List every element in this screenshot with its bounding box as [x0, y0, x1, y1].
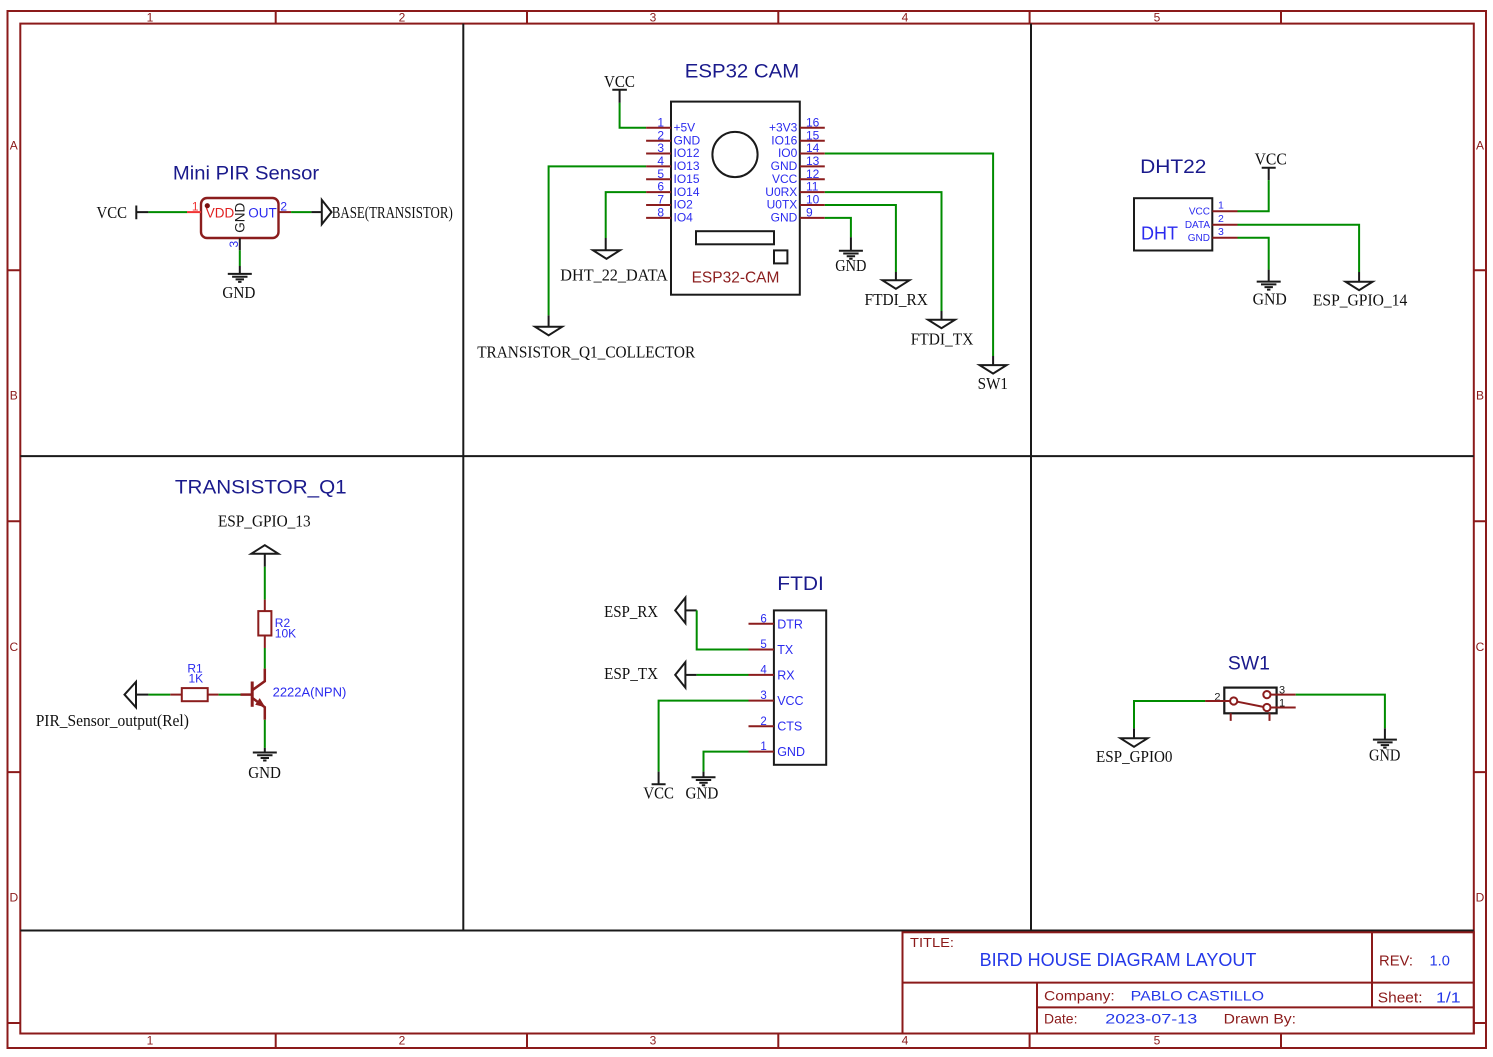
svg-text:RX: RX [777, 668, 795, 682]
wire FTDI VCC pin3 to VCC port [659, 701, 749, 772]
svg-text:A: A [1476, 139, 1484, 153]
svg-text:3: 3 [650, 11, 657, 25]
ground symbol (PIR) [228, 274, 252, 282]
wire DHT pin3 to GND [1238, 238, 1269, 270]
svg-text:13: 13 [806, 154, 820, 168]
global label arrow SW1 (down) [980, 365, 1007, 374]
global label arrow FTDI_RX (down) [882, 280, 909, 289]
svg-text:OUT: OUT [248, 205, 277, 220]
wire R1 to base [208, 694, 219, 696]
svg-text:16: 16 [806, 115, 820, 129]
svg-text:DATA: DATA [1185, 220, 1211, 231]
svg-text:C: C [1476, 640, 1485, 654]
svg-text:ESP_TX: ESP_TX [604, 664, 658, 683]
DHT22 sensor body U3 [1134, 198, 1212, 250]
global label arrow ESP_GPIO_14 (down) [1346, 282, 1373, 291]
svg-text:Date:: Date: [1044, 1011, 1077, 1027]
svg-text:VCC: VCC [1189, 206, 1210, 217]
svg-text:Company:: Company: [1044, 988, 1115, 1004]
wire IO0 to SW1 label [825, 154, 993, 357]
resistor R1 [182, 662, 208, 702]
left pin names [674, 121, 701, 225]
svg-text:3: 3 [760, 690, 766, 702]
svg-text:GND: GND [1253, 289, 1287, 308]
PIR pin 1 [187, 199, 201, 213]
wire R1 to PIR_Sensor_output [170, 694, 182, 696]
svg-text:3: 3 [650, 1034, 657, 1048]
wire U0RX to FTDI_TX label [825, 192, 942, 311]
svg-text:IO13: IO13 [674, 159, 700, 173]
resistor R2 [258, 611, 296, 640]
svg-text:6: 6 [657, 180, 664, 194]
svg-text:SW1: SW1 [978, 374, 1008, 393]
global label arrow DHT_22_DATA (down) [593, 250, 620, 258]
global label arrow FTDI_TX (down) [928, 320, 955, 329]
right pin names [765, 121, 797, 225]
svg-text:TRANSISTOR_Q1: TRANSISTOR_Q1 [175, 477, 347, 498]
power port VCC (PIR) [97, 203, 149, 222]
global label ESP_RX [604, 598, 685, 624]
wire VCC to pin1 [620, 103, 647, 128]
wire pin9 GND to ground [825, 218, 851, 237]
svg-text:5: 5 [1154, 1034, 1161, 1048]
wire pin3 to GND [239, 250, 241, 266]
svg-text:TX: TX [777, 643, 794, 657]
svg-text:VCC: VCC [97, 203, 128, 222]
left pin stubs 1-8 [646, 128, 671, 218]
svg-text:GND: GND [248, 763, 281, 782]
global label arrow ESP_GPIO_13 (up) [251, 545, 278, 554]
svg-text:GND: GND [835, 256, 866, 275]
svg-text:Sheet:: Sheet: [1378, 991, 1423, 1007]
global label arrow ESP_GPIO0 (down) [1121, 738, 1148, 747]
svg-text:FTDI: FTDI [777, 574, 824, 595]
svg-text:ESP_GPIO0: ESP_GPIO0 [1096, 747, 1173, 766]
wire ESP_RX to FTDI TX [685, 609, 696, 611]
PIR pin 3 [227, 238, 241, 250]
SW1 pin numbers [1214, 685, 1285, 710]
transistor Q1 2222A(NPN) [241, 669, 265, 720]
wire SW1 pin3 to GND [1296, 695, 1385, 729]
svg-text:U0TX: U0TX [767, 198, 798, 212]
svg-text:GND: GND [1188, 233, 1210, 244]
svg-text:BIRD HOUSE DIAGRAM LAYOUT: BIRD HOUSE DIAGRAM LAYOUT [980, 950, 1257, 970]
svg-text:U0RX: U0RX [765, 185, 797, 199]
svg-text:3: 3 [657, 141, 664, 155]
svg-text:TITLE:: TITLE: [910, 935, 954, 950]
svg-text:1: 1 [147, 1034, 154, 1048]
ground symbol (ESP32 pin9) [839, 251, 863, 259]
svg-text:5: 5 [760, 639, 766, 651]
svg-text:ESP_GPIO_13: ESP_GPIO_13 [218, 511, 311, 530]
global label BASE(TRANSISTOR) [322, 200, 453, 224]
FTDI pin numbers [760, 613, 767, 753]
wire R2 to collector [264, 636, 266, 649]
PIR sensor body U1 [201, 198, 279, 238]
DHT pin names [1185, 206, 1211, 244]
ground symbol (Q1) [253, 753, 277, 761]
ground symbol (DHT22) [1257, 282, 1281, 290]
svg-text:TRANSISTOR_Q1_COLLECTOR: TRANSISTOR_Q1_COLLECTOR [477, 343, 696, 362]
svg-text:PIR_Sensor_output(Rel): PIR_Sensor_output(Rel) [36, 711, 189, 730]
wire U0TX to FTDI_RX label [825, 205, 896, 272]
global label ESP_TX [604, 662, 685, 688]
svg-text:D: D [1476, 891, 1485, 905]
svg-text:9: 9 [806, 206, 813, 220]
svg-text:2: 2 [399, 11, 406, 25]
svg-text:4: 4 [902, 1034, 909, 1048]
svg-text:ESP32-CAM: ESP32-CAM [692, 270, 780, 287]
svg-text:2023-07-13: 2023-07-13 [1105, 1011, 1197, 1027]
svg-text:B: B [1476, 389, 1484, 403]
svg-text:IO4: IO4 [674, 211, 694, 225]
svg-text:DHT: DHT [1141, 223, 1178, 243]
wire FTDI GND pin1 to ground [704, 752, 749, 772]
svg-text:D: D [9, 891, 18, 905]
svg-text:GND: GND [685, 784, 718, 803]
power port VCC (ESP32) [604, 72, 635, 103]
wire IO14 to DHT_22_DATA [606, 192, 646, 238]
svg-text:FTDI_RX: FTDI_RX [865, 290, 928, 309]
svg-text:Mini PIR Sensor: Mini PIR Sensor [173, 163, 320, 184]
wire VCC to PIR pin1 [148, 211, 187, 213]
svg-text:14: 14 [806, 141, 820, 155]
svg-text:GND: GND [771, 211, 798, 225]
svg-text:FTDI_TX: FTDI_TX [911, 329, 974, 348]
svg-text:8: 8 [657, 206, 664, 220]
svg-text:4: 4 [902, 11, 909, 25]
svg-text:2: 2 [399, 1034, 406, 1048]
FTDI pin names [777, 617, 805, 759]
svg-text:VCC: VCC [643, 784, 674, 803]
PIR pin 2 [279, 199, 292, 213]
svg-text:IO14: IO14 [674, 185, 700, 199]
svg-text:VDD: VDD [206, 205, 235, 220]
svg-text:4: 4 [760, 665, 767, 677]
svg-text:ESP_RX: ESP_RX [604, 602, 658, 621]
svg-text:VCC: VCC [1255, 149, 1287, 168]
svg-text:BASE(TRANSISTOR): BASE(TRANSISTOR) [332, 203, 453, 222]
wire DHT pin1 to VCC [1238, 180, 1269, 211]
svg-text:VCC: VCC [604, 72, 635, 91]
svg-text:1/1: 1/1 [1436, 991, 1461, 1007]
svg-text:IO12: IO12 [674, 146, 700, 160]
svg-text:DTR: DTR [777, 617, 803, 631]
right pin numbers 16-9 [806, 115, 820, 219]
svg-text:10: 10 [806, 193, 820, 207]
svg-text:SW1: SW1 [1228, 654, 1270, 675]
svg-text:7: 7 [657, 193, 664, 207]
svg-text:3: 3 [1218, 226, 1224, 238]
svg-text:ESP_GPIO_14: ESP_GPIO_14 [1313, 291, 1408, 310]
DHT pin stubs 1-3 [1212, 211, 1237, 238]
svg-text:GND: GND [771, 159, 798, 173]
ground symbol (FTDI) [692, 777, 716, 785]
wire pin2 to BASE label [291, 211, 311, 213]
svg-text:6: 6 [760, 613, 766, 625]
SW1 pin stubs [1205, 695, 1296, 708]
svg-text:2222A(NPN): 2222A(NPN) [273, 684, 347, 699]
svg-text:1.0: 1.0 [1430, 954, 1450, 970]
svg-text:REV:: REV: [1379, 954, 1413, 970]
svg-text:11: 11 [806, 180, 819, 194]
power port VCC (FTDI, down) [643, 772, 674, 803]
svg-text:+5V: +5V [674, 121, 696, 135]
FTDI connector body J1 [774, 610, 826, 764]
svg-text:DHT22: DHT22 [1140, 157, 1206, 178]
svg-text:2: 2 [760, 716, 766, 728]
svg-text:DHT_22_DATA: DHT_22_DATA [560, 265, 668, 284]
switch SW1 body [1224, 688, 1276, 721]
svg-text:1: 1 [147, 11, 154, 25]
svg-text:1: 1 [760, 741, 766, 753]
svg-text:ESP32 CAM: ESP32 CAM [685, 61, 800, 82]
ESP32-CAM module body U2 [671, 102, 800, 295]
svg-text:CTS: CTS [777, 720, 802, 734]
svg-text:10K: 10K [275, 627, 296, 641]
wire ESP_TX to FTDI RX [685, 674, 696, 676]
svg-text:B: B [10, 389, 18, 403]
svg-text:PABLO CASTILLO: PABLO CASTILLO [1131, 988, 1264, 1004]
DHT pin numbers [1218, 200, 1224, 239]
svg-text:IO2: IO2 [674, 198, 694, 212]
power port VCC (DHT22) [1255, 149, 1287, 180]
svg-text:Drawn By:: Drawn By: [1224, 1011, 1296, 1027]
svg-text:VCC: VCC [777, 694, 803, 708]
svg-text:GND: GND [233, 203, 248, 233]
right pin stubs 16-9 [800, 128, 825, 218]
wire SW1 pin2 to ESP_GPIO0 [1134, 701, 1205, 728]
title block [903, 932, 1474, 1033]
svg-text:GND: GND [1369, 745, 1401, 764]
svg-text:2: 2 [1218, 213, 1224, 225]
global label arrow TRANSISTOR_Q1_COLLECTOR (down) [535, 327, 562, 336]
wire ESP_GPIO_13 to R2 [264, 554, 266, 567]
wire DHT pin2 to ESP_GPIO_14 [1238, 225, 1360, 272]
svg-text:+3V3: +3V3 [769, 121, 798, 135]
svg-text:C: C [9, 640, 18, 654]
svg-text:GND: GND [777, 745, 805, 759]
svg-text:GND: GND [222, 283, 255, 302]
svg-text:1: 1 [657, 115, 664, 129]
FTDI pin stubs 6-1 [749, 624, 774, 752]
svg-text:1K: 1K [188, 671, 203, 685]
wire IO13 to TRANSISTOR_Q1_COLLECTOR [549, 166, 647, 315]
svg-text:A: A [10, 139, 18, 153]
svg-text:IO0: IO0 [778, 146, 798, 160]
ground symbol (SW1) [1373, 740, 1397, 748]
left pin numbers 1-8 [657, 115, 664, 219]
svg-text:5: 5 [1154, 11, 1161, 25]
svg-text:4: 4 [657, 154, 664, 168]
svg-text:1: 1 [1218, 200, 1224, 212]
wire emitter to GND [264, 720, 266, 748]
global label PIR_Sensor_output(Rel) [36, 682, 189, 730]
